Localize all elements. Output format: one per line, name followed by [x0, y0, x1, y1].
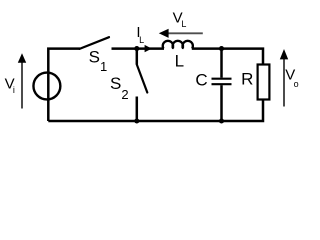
arrow I_L (inductor current, pointing right on wire) — [145, 45, 152, 52]
resistor R box — [258, 65, 270, 100]
capacitor C top lead — [220, 49, 223, 78]
wire top-left segment — [48, 49, 80, 121]
svg-text:C: C — [195, 71, 207, 90]
arrow V_i (input voltage, pointing up) — [18, 53, 26, 108]
svg-text:Vi: Vi — [5, 75, 15, 95]
capacitor C top plate — [212, 78, 232, 80]
svg-text:R: R — [241, 70, 253, 89]
arrow V_L (inductor voltage, pointing left) — [159, 29, 203, 38]
svg-text:L: L — [175, 51, 184, 70]
node capacitor bottom junction — [219, 118, 224, 123]
wire inductor to right branch — [192, 49, 263, 65]
switch S2 bottom stub — [136, 97, 139, 122]
arrow V_o (output voltage, pointing up) — [280, 49, 288, 107]
wire resistor to bottom — [48, 100, 263, 122]
wire S1 right to inductor — [112, 47, 165, 50]
capacitor C bottom plate — [212, 83, 232, 85]
switch S2 top stub — [136, 49, 139, 65]
wire through source — [47, 72, 50, 102]
node capacitor top junction — [219, 46, 224, 51]
node S2 top junction — [134, 46, 139, 51]
node S2 bottom junction — [134, 118, 139, 123]
switch S2 blade — [137, 65, 148, 93]
inductor L — [163, 41, 193, 49]
capacitor C bottom lead — [220, 85, 223, 121]
voltage source V_i circle — [33, 73, 60, 100]
switch S1 blade — [80, 37, 110, 49]
